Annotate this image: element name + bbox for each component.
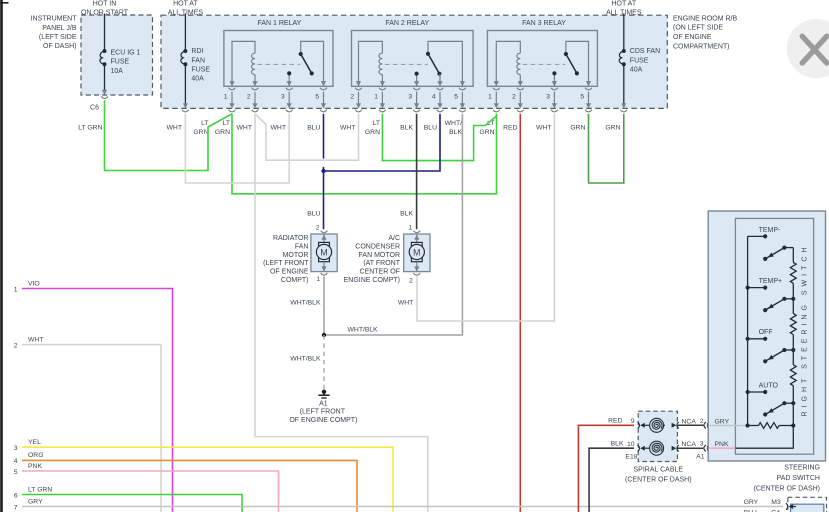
svg-text:1: 1	[409, 224, 413, 231]
close (X) button top right	[787, 19, 829, 78]
svg-text:FAN 1 RELAY: FAN 1 RELAY	[257, 20, 301, 27]
svg-text:3: 3	[408, 93, 412, 100]
svg-text:FAN: FAN	[295, 243, 309, 250]
A/C condenser fan motor connector bottom	[416, 262, 418, 272]
svg-text:(LEFT FRONT: (LEFT FRONT	[263, 260, 309, 267]
fuse CDS FAN element	[622, 49, 626, 53]
svg-text:GRY: GRY	[744, 499, 759, 506]
svg-text:A1: A1	[319, 401, 328, 408]
svg-text:(CENTER OF DASH): (CENTER OF DASH)	[625, 476, 692, 483]
svg-text:BLK: BLK	[400, 124, 413, 131]
wire RDI fuse down to R/B bottom	[184, 64, 186, 104]
svg-text:4: 4	[432, 93, 436, 100]
pin 4 connector	[437, 88, 444, 90]
svg-text:MOTOR: MOTOR	[283, 252, 309, 259]
wire dashed WHT/BLK junction to ground A1	[323, 335, 325, 390]
engine room R/B box	[161, 15, 667, 108]
wire GRN from FAN3 pin 5 to CDS fuse	[589, 114, 624, 183]
svg-text:M: M	[320, 247, 328, 257]
svg-text:WHT: WHT	[28, 336, 43, 343]
svg-text:BLU: BLU	[307, 124, 320, 131]
pin 2 connector	[252, 88, 259, 90]
wire RED from FAN3 pin 2 down off-page	[519, 114, 521, 512]
svg-text:TEMP-: TEMP-	[759, 227, 781, 234]
svg-text:LT: LT	[373, 120, 380, 127]
svg-text:6: 6	[14, 492, 18, 499]
svg-text:M3: M3	[771, 499, 781, 506]
spiral cable coil pin 10	[640, 446, 645, 451]
svg-text:A/C: A/C	[388, 235, 400, 242]
wire fuse to C6 connector	[104, 64, 106, 90]
svg-text:OFF: OFF	[759, 329, 773, 336]
svg-text:2: 2	[14, 342, 18, 349]
radiator fan motor connector bottom	[323, 262, 325, 272]
svg-text:5: 5	[315, 93, 319, 100]
svg-text:NCA: NCA	[682, 418, 697, 425]
radiator fan motor brushes and armature M	[319, 242, 330, 247]
svg-text:FAN 2 RELAY: FAN 2 RELAY	[385, 20, 429, 27]
svg-text:BLK: BLK	[611, 441, 624, 448]
svg-text:LT: LT	[223, 120, 230, 127]
svg-text:NCA: NCA	[682, 441, 697, 448]
svg-text:3: 3	[546, 93, 550, 100]
steering switch resistor chain right side	[792, 248, 794, 263]
svg-text:LT GRN: LT GRN	[78, 124, 102, 131]
svg-text:5: 5	[580, 93, 584, 100]
svg-text:40A: 40A	[191, 76, 204, 83]
resistor R1 (TEMP- / TEMP+)	[790, 262, 796, 283]
pin 2 connector	[517, 88, 524, 90]
FAN 2 RELAY coil between pin 2 and pin 1	[359, 41, 383, 86]
ground A1	[322, 390, 326, 394]
svg-text:C6: C6	[90, 104, 99, 111]
FAN 3 RELAY dashed actuator line	[523, 63, 566, 65]
wire WHT from FAN1 pin 2 to FAN2 pin 2	[255, 114, 359, 160]
connector M3 dashed box	[788, 497, 827, 512]
svg-text:SPIRAL CABLE: SPIRAL CABLE	[634, 467, 684, 474]
wire LT GRN from C6 to FAN1 relay pin 1	[105, 100, 233, 170]
svg-text:STEERING: STEERING	[784, 464, 820, 471]
FAN 3 RELAY switch pivot and arm	[566, 41, 589, 86]
svg-text:INSTRUMENT: INSTRUMENT	[31, 16, 78, 23]
svg-text:A1: A1	[696, 454, 705, 461]
connector symbol at M3	[789, 504, 794, 509]
svg-text:WHT/: WHT/	[445, 120, 462, 127]
radiator fan motor connector top	[321, 231, 328, 233]
steering pad switch outer box	[708, 211, 825, 461]
svg-text:9: 9	[631, 418, 635, 425]
FAN 3 RELAY coil between pin 1 and pin 2	[496, 41, 520, 86]
svg-text:HOT AT: HOT AT	[173, 1, 198, 8]
wire WHT from FAN1 pin 2 down off-page	[255, 114, 428, 512]
FAN 2 RELAY dashed actuator line	[385, 63, 428, 65]
wire internal PNK continuation to resistor chain	[735, 426, 793, 449]
svg-text:2: 2	[512, 93, 516, 100]
radiator fan motor box	[311, 234, 337, 272]
svg-text:E18: E18	[625, 453, 637, 460]
svg-text:WHT: WHT	[271, 124, 286, 131]
connector C6 at J/B bottom	[102, 90, 107, 95]
svg-text:RADIATOR: RADIATOR	[273, 235, 309, 242]
resistor R3 (OFF / AUTO)	[790, 365, 796, 386]
svg-text:WHT: WHT	[237, 124, 252, 131]
svg-text:OF DASH): OF DASH)	[43, 43, 76, 50]
relay FAN 3 RELAY box	[487, 31, 597, 87]
page border (left edge)	[0, 0, 3, 512]
A/C condenser fan motor brushes and armature M	[411, 242, 422, 247]
svg-text:7: 7	[14, 504, 18, 511]
node WHT/BLK junction	[322, 333, 326, 337]
svg-text:WHT: WHT	[340, 124, 355, 131]
svg-text:HOT AT: HOT AT	[611, 1, 636, 8]
wire LT GRN from FAN1 pin 1 to FAN3 pin 1	[232, 114, 497, 194]
svg-text:BLK: BLK	[449, 129, 462, 136]
svg-text:WHT: WHT	[536, 124, 551, 131]
svg-text:FUSE: FUSE	[630, 57, 649, 64]
svg-text:COMPT): COMPT)	[281, 277, 309, 284]
wire LT GRN from FAN2 pin 1 to FAN3 pin 1	[382, 114, 496, 161]
svg-text:BLU: BLU	[424, 124, 437, 131]
resistor R4 (bottom row)	[748, 425, 759, 427]
svg-text:FUSE: FUSE	[111, 59, 130, 66]
svg-text:BLU: BLU	[307, 211, 320, 218]
wire WHT from RDI fuse to FAN1 pin 3	[185, 114, 289, 183]
pin 3 connector	[286, 88, 293, 90]
svg-text:CENTER OF: CENTER OF	[360, 269, 400, 276]
svg-text:LT: LT	[201, 120, 208, 127]
svg-text:YEL: YEL	[28, 439, 41, 446]
wire BLK from bottom to spiral cable pin 10	[589, 448, 634, 512]
svg-text:2: 2	[247, 93, 251, 100]
wire WHT/BLK radiator motor pin 1 to junction	[323, 276, 325, 335]
svg-text:WHT/BLK: WHT/BLK	[290, 356, 321, 363]
wire NCA spiral to steering (row 2)	[663, 424, 665, 426]
svg-text:5: 5	[454, 93, 458, 100]
FAN 1 RELAY switch contact pin 3	[288, 73, 290, 86]
svg-text:WHT/BLK: WHT/BLK	[290, 300, 321, 307]
svg-text:RED: RED	[503, 124, 517, 131]
svg-text:PNK: PNK	[28, 463, 42, 470]
svg-text:HOT IN: HOT IN	[93, 1, 117, 8]
pin 3 connector	[413, 88, 420, 90]
svg-text:1: 1	[374, 93, 378, 100]
FAN 3 RELAY switch contact pin 3	[553, 73, 555, 86]
svg-text:PAD SWITCH: PAD SWITCH	[777, 475, 820, 482]
svg-text:M: M	[413, 247, 421, 257]
svg-text:GRY: GRY	[28, 498, 43, 505]
svg-text:(CENTER OF DASH): (CENTER OF DASH)	[754, 486, 821, 493]
fuse RDI FAN element	[183, 49, 187, 53]
svg-text:10A: 10A	[111, 68, 124, 75]
svg-text:COMPARTMENT): COMPARTMENT)	[673, 44, 730, 51]
pin 1 connector	[379, 88, 386, 90]
svg-text:40A: 40A	[630, 66, 643, 73]
fuse ECU IG 1 element	[103, 49, 107, 53]
svg-text:LT GRN: LT GRN	[28, 486, 52, 493]
spiral cable coil pin 9	[640, 423, 645, 428]
svg-text:PNK: PNK	[715, 441, 729, 448]
relay FAN 2 RELAY box	[352, 31, 474, 87]
svg-text:FAN: FAN	[191, 57, 205, 64]
wire NCA spiral to steering (row 3)	[672, 446, 677, 451]
svg-text:BLK: BLK	[400, 211, 413, 218]
wire WHT from A/C condenser motor pin 2 to FAN3 pin 3	[417, 114, 554, 321]
svg-text:1: 1	[488, 93, 492, 100]
svg-text:2: 2	[409, 278, 413, 285]
wire into ECU IG 1 fuse	[104, 14, 106, 52]
svg-text:FUSE: FUSE	[191, 66, 210, 73]
pin 5 connector	[585, 88, 592, 90]
svg-text:GRN: GRN	[479, 129, 494, 136]
wire WHT/BLK from FAN2 pin 5 to junction	[324, 114, 462, 335]
svg-text:(LEFT SIDE: (LEFT SIDE	[39, 34, 77, 41]
FAN 2 RELAY switch pivot and arm to pin 4	[428, 41, 462, 86]
svg-text:3: 3	[14, 445, 18, 452]
pin 5 connector	[320, 88, 327, 90]
svg-text:GRN: GRN	[605, 124, 620, 131]
svg-text:GRN: GRN	[570, 124, 585, 131]
svg-text:4: 4	[14, 458, 18, 465]
svg-text:VIO: VIO	[28, 281, 40, 288]
svg-text:ENGINE COMPT): ENGINE COMPT)	[344, 277, 400, 284]
svg-text:10: 10	[627, 441, 635, 448]
wire BLK from FAN2 pin 3 to A/C condenser fan motor pin 1	[416, 114, 418, 229]
FAN 2 RELAY contact pin 3	[416, 74, 418, 87]
FAN 1 RELAY coil between pin 1 and pin 2	[232, 41, 255, 86]
instrument panel J/B box	[81, 15, 153, 95]
svg-text:WHT: WHT	[398, 300, 413, 307]
resistor R2 (TEMP+ / OFF)	[790, 314, 796, 335]
svg-text:1: 1	[224, 93, 228, 100]
svg-text:RED: RED	[608, 417, 622, 424]
svg-text:FAN 3 RELAY: FAN 3 RELAY	[522, 20, 566, 27]
wire into RDI fuse	[184, 14, 186, 52]
pin 2 connector	[355, 88, 362, 90]
wire CDS fuse down to R/B bottom	[623, 64, 625, 104]
steering switch bus wire	[747, 236, 749, 425]
svg-text:PANEL J/B: PANEL J/B	[42, 25, 77, 32]
svg-text:GRN: GRN	[193, 129, 208, 136]
pin 1 connector	[229, 88, 236, 90]
right steering switch inner box	[735, 218, 813, 454]
pin 1 connector	[493, 88, 500, 90]
svg-text:1: 1	[14, 286, 18, 293]
svg-text:FAN MOTOR: FAN MOTOR	[359, 252, 400, 259]
wire RED from bottom to spiral cable pin 9	[578, 425, 634, 512]
svg-text:WHT: WHT	[167, 124, 182, 131]
svg-text:2: 2	[700, 418, 704, 425]
svg-text:ENGINE ROOM R/B: ENGINE ROOM R/B	[673, 15, 738, 22]
relay FAN 1 RELAY box	[224, 31, 333, 87]
svg-text:RIGHT STEERING SWITCH: RIGHT STEERING SWITCH	[802, 244, 809, 417]
wire BLU junction to radiator fan motor pin 2	[323, 171, 325, 229]
svg-text:CDS FAN: CDS FAN	[630, 48, 660, 55]
wire BLU from FAN2 pin 4 to junction	[324, 114, 441, 171]
FAN 1 RELAY switch pivot and arm	[301, 41, 324, 86]
spiral cable box	[638, 411, 677, 461]
svg-text:ORG: ORG	[28, 452, 43, 459]
svg-text:TEMP+: TEMP+	[759, 278, 783, 285]
svg-text:2: 2	[316, 224, 320, 231]
svg-text:3: 3	[281, 93, 285, 100]
wire BLU from FAN1 pin 5 to junction	[323, 114, 325, 159]
node BLU junction	[321, 169, 325, 173]
pin 3 connector	[551, 88, 558, 90]
A/C condenser fan motor box	[404, 234, 430, 272]
svg-text:GRN: GRN	[365, 129, 380, 136]
connector M3 inner box	[791, 504, 824, 512]
A/C condenser fan motor connector top	[413, 231, 420, 233]
FAN 1 RELAY dashed actuator line	[258, 63, 301, 65]
svg-text:OF ENGINE: OF ENGINE	[270, 269, 309, 276]
svg-text:1: 1	[316, 276, 320, 283]
svg-text:(AT FRONT: (AT FRONT	[363, 260, 400, 267]
pin 5 connector	[459, 88, 466, 90]
svg-text:ECU IG 1: ECU IG 1	[111, 50, 141, 57]
svg-text:3: 3	[700, 441, 704, 448]
svg-text:(ON LEFT SIDE: (ON LEFT SIDE	[673, 25, 723, 32]
svg-text:OF ENGINE: OF ENGINE	[673, 34, 712, 41]
svg-text:5: 5	[14, 469, 18, 476]
svg-text:(LEFT FRONT: (LEFT FRONT	[300, 409, 346, 416]
svg-text:GRN: GRN	[215, 129, 230, 136]
svg-text:GRY: GRY	[715, 418, 730, 425]
svg-text:CONDENSER: CONDENSER	[355, 243, 400, 250]
svg-text:2: 2	[350, 93, 354, 100]
svg-text:WHT/BLK: WHT/BLK	[348, 327, 379, 334]
svg-text:AUTO: AUTO	[759, 382, 779, 389]
wire into CDS fuse	[623, 14, 625, 52]
svg-text:RDI: RDI	[191, 48, 203, 55]
svg-text:OF ENGINE COMPT): OF ENGINE COMPT)	[289, 417, 357, 424]
